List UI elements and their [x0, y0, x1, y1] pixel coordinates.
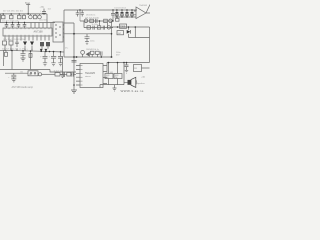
ground mid-bottom [60, 57, 65, 78]
electrolytic C12b [58, 52, 63, 66]
wire y21 bus [80, 20, 113, 22]
wire vertical x30 [30, 51, 32, 70]
svg-text:TDA2003: TDA2003 [139, 4, 147, 7]
electrolytic C10 [43, 51, 48, 66]
svg-text:1k 4u7 10k: 1k 4u7 10k [54, 70, 63, 72]
wire IC bottom pins [5, 37, 49, 41]
resistor R2 [10, 14, 12, 15]
svg-text:10R 10R: 10R 10R [106, 72, 114, 74]
resistor R22 on x30 [29, 54, 32, 58]
node dots y27 [117, 26, 119, 28]
U4 inner ticks [80, 66, 83, 86]
transistor Q2 [39, 14, 41, 15]
diode D4 [44, 49, 47, 52]
svg-text:WWW.3.as.ns: WWW.3.as.ns [121, 89, 144, 93]
diode bank leads [115, 10, 137, 17]
transistor Q1 [29, 14, 31, 15]
capacitor C18 [72, 61, 77, 63]
capacitor C23 hang [80, 10, 84, 17]
diode bank plates [115, 12, 118, 13]
capacitor C1 [42, 9, 46, 14]
electrolytic C11 [51, 52, 56, 66]
capacitor C15 [111, 10, 115, 21]
capacitor C16 [85, 34, 90, 45]
supply B+ lead [26, 5, 30, 14]
node dots y57 [73, 56, 75, 58]
diode D6 lead [128, 27, 130, 38]
capacitor C19 [125, 63, 129, 74]
svg-text:100u: 100u [90, 41, 94, 43]
svg-text:AN7168: AN7168 [34, 31, 44, 34]
svg-text:22k 4u7 100u 220 +C 470u: 22k 4u7 100u 220 +C 470u + [2, 48, 29, 50]
svg-text:1N4148 10k 1u: 1N4148 10k 1u [86, 49, 99, 51]
capacitor C8 input [5, 73, 16, 79]
capacitor C7b [5, 50, 7, 52]
resistor R6 [9, 41, 13, 45]
node dots y62.5 [108, 62, 110, 64]
resistor R5 [3, 41, 7, 45]
svg-text:TEA2025: TEA2025 [85, 72, 96, 75]
svg-text:Tout: Tout [25, 1, 30, 5]
node dot x111 y33.8 [111, 33, 113, 35]
resistor R3 [18, 14, 20, 15]
svg-text:2W: 2W [106, 77, 109, 79]
wire y27.6 row2 [84, 21, 113, 28]
svg-text:2200: 2200 [120, 26, 126, 28]
capacitor C13 [93, 26, 94, 30]
resistor R14 [117, 31, 124, 35]
wire to U4 [71, 73, 76, 75]
resistor R10 [104, 19, 108, 22]
capacitor C9b [72, 72, 73, 76]
resistor R19 [134, 65, 142, 72]
wire vertical x12 [11, 50, 13, 69]
transistor Q6 [107, 26, 110, 29]
wire y27 right [112, 26, 150, 28]
transistor Q5 [109, 19, 113, 23]
wire under-IC drops [5, 45, 48, 51]
svg-text:2W: 2W [115, 77, 118, 79]
svg-text:1k 100n: 1k 100n [92, 24, 99, 26]
svg-text:2SC945 1k: 2SC945 1k [86, 15, 95, 17]
resistor R4 [23, 14, 25, 15]
resistor R18 [114, 74, 122, 79]
diode bank bodies [116, 14, 119, 16]
wire right vertical x111 [111, 21, 113, 57]
capacitor C17 [101, 51, 102, 57]
node dots bus3 [11, 50, 13, 52]
svg-text:100n: 100n [116, 52, 120, 54]
wire y33.8 bus [64, 33, 112, 35]
wire y62.5 right [107, 62, 150, 64]
wire y84.6 bottom [100, 79, 124, 88]
wire bottom-left [0, 70, 76, 73]
capacitor C12 [96, 19, 97, 23]
diode D2 [30, 42, 34, 46]
wire x135 drop [129, 27, 150, 38]
capacitor C21 body [46, 42, 50, 46]
svg-text:10u 47u 100n 22u: 10u 47u 100n 22u [2, 20, 20, 22]
diode D1 [23, 42, 27, 46]
tick marks bus3 [5, 49, 32, 52]
wire y57 bus [64, 56, 112, 58]
resistor R13 [120, 24, 127, 28]
connector J1 pins [30, 73, 32, 75]
wire x124 speaker feed [124, 63, 128, 85]
wire bus3 [0, 50, 64, 52]
resistor R12 [97, 26, 101, 29]
wire R19 out [142, 67, 150, 69]
wire vertical x3 [3, 50, 5, 66]
resistor R7 [55, 73, 60, 77]
U2 right pins [63, 25, 64, 37]
node dot x74 y33.8 [73, 33, 75, 35]
resistor R15 [90, 51, 94, 54]
resistor R1 [2, 14, 4, 15]
svg-text:Speaker: Speaker [137, 82, 145, 85]
svg-text:100n 10u D1 D2 47u 220u: 100n 10u D1 D2 47u 220u [3, 39, 25, 41]
amplifier U5 triangle [134, 5, 150, 19]
wire IC top pins [31, 23, 51, 29]
diode D7 [86, 52, 89, 57]
capacitor C2 pin [5, 23, 9, 29]
connector J1 [28, 71, 38, 76]
wire x74 lower [73, 57, 75, 90]
diode D3 [40, 49, 43, 52]
resistor R11 [87, 26, 91, 29]
U4 right pins [103, 66, 107, 84]
wire x80 drop [79, 10, 81, 21]
resistor R21 under rail [116, 18, 120, 21]
jack J2 [38, 73, 41, 76]
U1 inner pin ticks [5, 28, 49, 36]
ground x115 [113, 85, 117, 91]
capacitor C20 body [40, 42, 44, 46]
capacitor C3 pin [11, 23, 15, 29]
svg-text:D1 D2 D3 D4: D1 D2 D3 D4 [115, 8, 126, 10]
node dots top bus [79, 9, 80, 10]
wire x74 vertical [64, 23, 74, 57]
speaker SP ring [135, 80, 137, 84]
svg-text:stereo: stereo [85, 75, 91, 78]
diode bank rail dots [116, 16, 117, 17]
node dots top-left bus [3, 13, 4, 14]
svg-text:+4Ω: +4Ω [141, 77, 145, 79]
resistor R8 [67, 73, 71, 77]
transistor Q7 [81, 51, 85, 55]
power IC U4 body [80, 64, 103, 88]
capacitor C22 hang [76, 10, 80, 17]
capacitor C5 pin [23, 23, 27, 29]
capacitor C9 [60, 72, 67, 77]
capacitor C4 pin [17, 23, 21, 29]
resistor R9 [90, 19, 94, 22]
ground x74 [71, 90, 77, 93]
resistor R5a [34, 14, 36, 15]
node dots y21 [99, 20, 100, 21]
node dot x74 y85 [73, 84, 75, 86]
wire bus2 [0, 14, 55, 23]
IC U2 body [53, 22, 63, 42]
capacitor C6 [15, 41, 18, 48]
diode D6 [127, 30, 131, 34]
ground input [11, 73, 28, 82]
svg-text:100u/16V: 100u/16V [39, 20, 48, 22]
svg-text:104: 104 [48, 9, 51, 11]
frame left vertical [63, 10, 65, 57]
speaker SP magnet [128, 80, 132, 85]
op-amp U1 AN7168 body [3, 28, 52, 36]
svg-text:10k 4u7 2k2 BC: 10k 4u7 2k2 BC [85, 17, 100, 19]
wire bottom-center [42, 73, 55, 75]
resistor R17 [105, 74, 113, 79]
resistor R16 [96, 51, 100, 54]
svg-text:47u: 47u [65, 48, 68, 50]
wire top-left bus [0, 13, 47, 15]
wire U4 right rail [106, 63, 108, 72]
speaker SP cone [131, 77, 136, 87]
capacitor C14 [103, 26, 104, 30]
transistor Q4 [84, 19, 88, 23]
U4 left pins [76, 66, 80, 86]
wire right edge vertical [149, 27, 151, 63]
wire top bus right [64, 9, 137, 11]
resistor R17 lead [108, 63, 110, 74]
U2 internal ticks [55, 25, 61, 37]
node dots bus2 [6, 22, 7, 23]
svg-text:AN7168 Audio amp: AN7168 Audio amp [12, 86, 34, 89]
capacitor C7 to ground [21, 51, 26, 61]
svg-text:10k: 10k [20, 72, 23, 74]
svg-text:4k7 10k 2SC 100 1k5: 4k7 10k 2SC 100 1k5 [3, 11, 24, 13]
resistor R18 lead [117, 63, 119, 74]
